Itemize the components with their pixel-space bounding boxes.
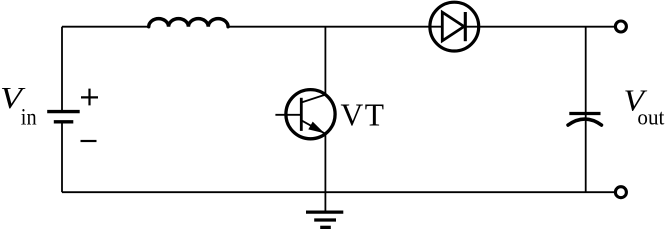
svg-text:VT: VT bbox=[341, 98, 386, 133]
svg-text:in: in bbox=[21, 104, 37, 129]
svg-text:out: out bbox=[637, 104, 664, 129]
